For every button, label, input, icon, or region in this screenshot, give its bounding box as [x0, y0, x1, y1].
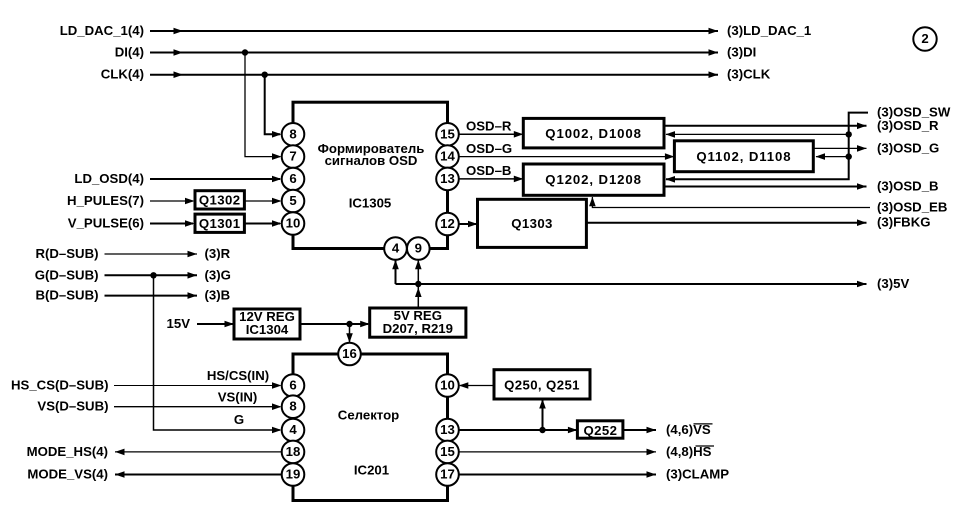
wire pin 15 HS output: [459, 449, 656, 456]
wire H_PULES to Q1302: [150, 198, 195, 205]
svg-text:(3)FBKG: (3)FBKG: [877, 215, 930, 230]
svg-text:(3)DI: (3)DI: [727, 45, 756, 60]
wire DI: [150, 49, 718, 56]
pin 10 of IC201: [436, 374, 459, 397]
svg-text:VS(D–SUB): VS(D–SUB): [37, 399, 108, 414]
wire LD_OSD to pin 6: [150, 176, 282, 183]
junction dot pin13 branch: [539, 427, 545, 433]
svg-text:(3)G: (3)G: [205, 267, 231, 282]
wire Q1301 to pin 10: [244, 220, 281, 227]
svg-text:(3)R: (3)R: [205, 246, 231, 261]
pin 16 of IC201: [338, 343, 361, 366]
svg-text:OSD–G: OSD–G: [466, 141, 512, 156]
pin 15 of IC1305: [436, 123, 459, 146]
regulator box 12V REG IC1304: [234, 309, 300, 339]
svg-text:B(D–SUB): B(D–SUB): [35, 288, 98, 303]
junction dot CLK branch: [262, 72, 268, 78]
IC U201 block body: [293, 354, 448, 501]
wire G branch to pin 4: [154, 275, 282, 433]
junction dot OSD_SW / G return: [846, 153, 852, 159]
wire OSD-B pin13 to Q1202: [459, 176, 524, 183]
wire VS to pin 8: [114, 403, 282, 410]
svg-text:(3)OSD_EB: (3)OSD_EB: [877, 200, 947, 215]
wire 15V to 12V REG: [197, 321, 234, 328]
svg-text:5: 5: [289, 193, 296, 208]
transistor box Q252: [577, 421, 623, 438]
pin 12 of IC1305: [436, 213, 459, 236]
pin 19 of IC201: [282, 463, 305, 486]
pin 15 of IC201: [436, 441, 459, 464]
wire V_PULSE to Q1301: [150, 220, 195, 227]
junction dot 12V to pin16: [346, 321, 352, 327]
wire MODE_VS from pin 19: [115, 471, 282, 478]
svg-text:H_PULES(7): H_PULES(7): [67, 193, 144, 208]
pin 4 of IC1305: [384, 237, 407, 260]
svg-text:Q252: Q252: [583, 423, 617, 438]
wire MODE_HS from pin 18: [115, 449, 282, 456]
transistor box Q1002, D1008: [523, 118, 664, 147]
svg-text:17: 17: [440, 467, 455, 482]
svg-text:MODE_VS(4): MODE_VS(4): [27, 467, 108, 482]
transistor box Q1202, D1208: [523, 164, 664, 195]
wire 12V REG to 5V REG: [300, 321, 370, 328]
svg-text:DI(4): DI(4): [115, 45, 144, 60]
svg-text:15: 15: [440, 444, 455, 459]
svg-text:Q1102, D1108: Q1102, D1108: [696, 149, 791, 164]
pin 9 of IC1305: [407, 237, 430, 260]
svg-text:VS(IN): VS(IN): [218, 390, 258, 405]
wire OSD_R output: [664, 123, 867, 130]
wire OSD-R pin15 to Q1002: [459, 131, 524, 138]
svg-text:19: 19: [286, 467, 301, 482]
pin 8 of IC201: [282, 395, 305, 418]
wire FBKG output: [586, 219, 866, 226]
wire OSD_G return into Q1102: [816, 153, 849, 160]
wire Q250 to pin 10: [459, 382, 494, 389]
svg-text:9: 9: [415, 241, 422, 256]
svg-text:8: 8: [289, 399, 296, 414]
svg-text:D207, R219: D207, R219: [383, 321, 453, 336]
wire R D-SUB: [105, 251, 198, 258]
svg-text:(3)CLAMP: (3)CLAMP: [666, 467, 729, 482]
svg-text:(3)OSD_R: (3)OSD_R: [877, 118, 939, 133]
wire 5V to pin 4: [392, 260, 399, 284]
svg-text:8: 8: [289, 126, 296, 141]
transistor box Q1302: [195, 191, 244, 209]
wire junction down to pin 16: [346, 324, 353, 343]
svg-text:4: 4: [289, 422, 297, 437]
svg-text:Q1002, D1008: Q1002, D1008: [545, 126, 642, 141]
svg-text:13: 13: [440, 422, 455, 437]
wire CLK branch to pin 8: [265, 75, 282, 138]
svg-text:HS/CS(IN): HS/CS(IN): [207, 368, 269, 383]
wire branch up to Q250 bottom: [539, 399, 546, 430]
svg-text:14: 14: [440, 149, 455, 164]
svg-text:Селектор: Селектор: [338, 408, 399, 423]
wire OSD_R return into Q1002: [666, 131, 849, 138]
svg-text:OSD–R: OSD–R: [466, 119, 512, 134]
svg-text:12: 12: [440, 216, 455, 231]
svg-text:6: 6: [289, 378, 296, 393]
svg-text:Q1202, D1208: Q1202, D1208: [545, 172, 642, 187]
svg-text:10: 10: [440, 378, 455, 393]
wire HS_CS to pin 6: [114, 382, 282, 389]
label (4,8)HS with overline: [666, 444, 714, 459]
svg-text:IC201: IC201: [354, 463, 389, 478]
svg-text:CLK(4): CLK(4): [101, 67, 144, 82]
svg-text:7: 7: [289, 149, 296, 164]
regulator box 5V REG D207, R219: [370, 308, 466, 337]
wire Q252 to VS output: [623, 427, 656, 434]
pin 13 of IC1305: [436, 168, 459, 191]
pin 7 of IC1305: [282, 145, 305, 168]
svg-text:G(D–SUB): G(D–SUB): [35, 267, 99, 282]
svg-text:Q1301: Q1301: [199, 216, 241, 231]
svg-text:Q250, Q251: Q250, Q251: [504, 378, 580, 393]
wire CLK: [150, 71, 718, 78]
svg-text:10: 10: [286, 216, 301, 231]
wire pin 12 to Q1303: [459, 221, 478, 228]
pin 17 of IC201: [436, 463, 459, 486]
wire 5V REG up to pin 9: [415, 260, 422, 308]
label (4,6)VS with overline: [666, 422, 713, 437]
transistor box Q1301: [195, 214, 244, 232]
wire Q1302 to pin 5: [244, 198, 281, 205]
transistor box Q250, Q251: [494, 370, 590, 399]
svg-text:6: 6: [289, 171, 296, 186]
svg-text:(3)B: (3)B: [205, 288, 231, 303]
svg-text:Q1302: Q1302: [199, 193, 241, 208]
svg-text:(3)OSD_B: (3)OSD_B: [877, 179, 939, 194]
pin 10 of IC1305: [282, 212, 305, 235]
pin 6 of IC1305: [282, 168, 305, 191]
transistor box Q1102, D1108: [674, 141, 813, 172]
wire G D-SUB: [105, 272, 198, 279]
wire OSD_SW to returns and Q1202: [666, 113, 869, 183]
page reference circle 2: [913, 27, 936, 50]
label Формирователь сигналов OSD: [318, 141, 425, 168]
svg-text:16: 16: [342, 346, 357, 361]
svg-text:Q1303: Q1303: [511, 216, 553, 231]
svg-text:(3)LD_DAC_1: (3)LD_DAC_1: [727, 23, 811, 38]
pin 13 of IC201: [436, 419, 459, 442]
junction dot 5V net: [415, 281, 421, 287]
pin 6 of IC201: [282, 374, 305, 397]
wire pin 13 to Q252: [459, 427, 578, 434]
wire 5V output: [396, 281, 867, 288]
svg-text:IC1304: IC1304: [246, 322, 289, 337]
svg-text:(3)CLK: (3)CLK: [727, 67, 771, 82]
junction dot G branch: [150, 272, 156, 278]
svg-text:G: G: [234, 412, 244, 427]
wire OSD_B output: [664, 183, 867, 190]
pin 8 of IC1305: [282, 123, 305, 146]
svg-text:R(D–SUB): R(D–SUB): [35, 246, 98, 261]
svg-text:IC1305: IC1305: [349, 196, 392, 211]
svg-text:18: 18: [286, 444, 301, 459]
svg-text:OSD–B: OSD–B: [466, 163, 511, 178]
svg-text:MODE_HS(4): MODE_HS(4): [27, 444, 108, 459]
svg-text:сигналов OSD: сигналов OSD: [325, 153, 418, 168]
svg-text:15V: 15V: [167, 316, 191, 331]
wire OSD_EB to Q1202 bottom: [589, 197, 870, 208]
svg-text:(3)OSD_G: (3)OSD_G: [877, 140, 939, 155]
pin 5 of IC1305: [282, 190, 305, 213]
junction dot DI branch: [242, 49, 248, 55]
wire LD_DAC_1: [150, 28, 718, 35]
svg-text:LD_OSD(4): LD_OSD(4): [74, 171, 144, 186]
svg-text:V_PULSE(6): V_PULSE(6): [68, 216, 144, 231]
junction dot OSD_SW / R return: [846, 131, 852, 137]
svg-text:(3)5V: (3)5V: [877, 276, 909, 291]
transistor box Q1303: [478, 199, 587, 247]
wire OSD_G output: [813, 145, 866, 152]
IC U1305 block body: [293, 102, 448, 248]
pin 14 of IC1305: [436, 145, 459, 168]
wire OSD-G pin14 to Q1102: [459, 153, 675, 160]
svg-text:LD_DAC_1(4): LD_DAC_1(4): [60, 23, 144, 38]
svg-text:(3)OSD_SW: (3)OSD_SW: [877, 105, 951, 120]
svg-text:15: 15: [440, 126, 455, 141]
svg-text:13: 13: [440, 171, 455, 186]
svg-text:4: 4: [392, 241, 400, 256]
pin 18 of IC201: [282, 441, 305, 464]
wire DI branch to pin 7: [245, 53, 282, 160]
svg-text:2: 2: [921, 31, 928, 46]
wire pin 17 CLAMP output: [459, 471, 656, 478]
wire B D-SUB: [105, 292, 198, 299]
svg-text:HS_CS(D–SUB): HS_CS(D–SUB): [11, 378, 108, 393]
pin 4 of IC201: [282, 419, 305, 442]
